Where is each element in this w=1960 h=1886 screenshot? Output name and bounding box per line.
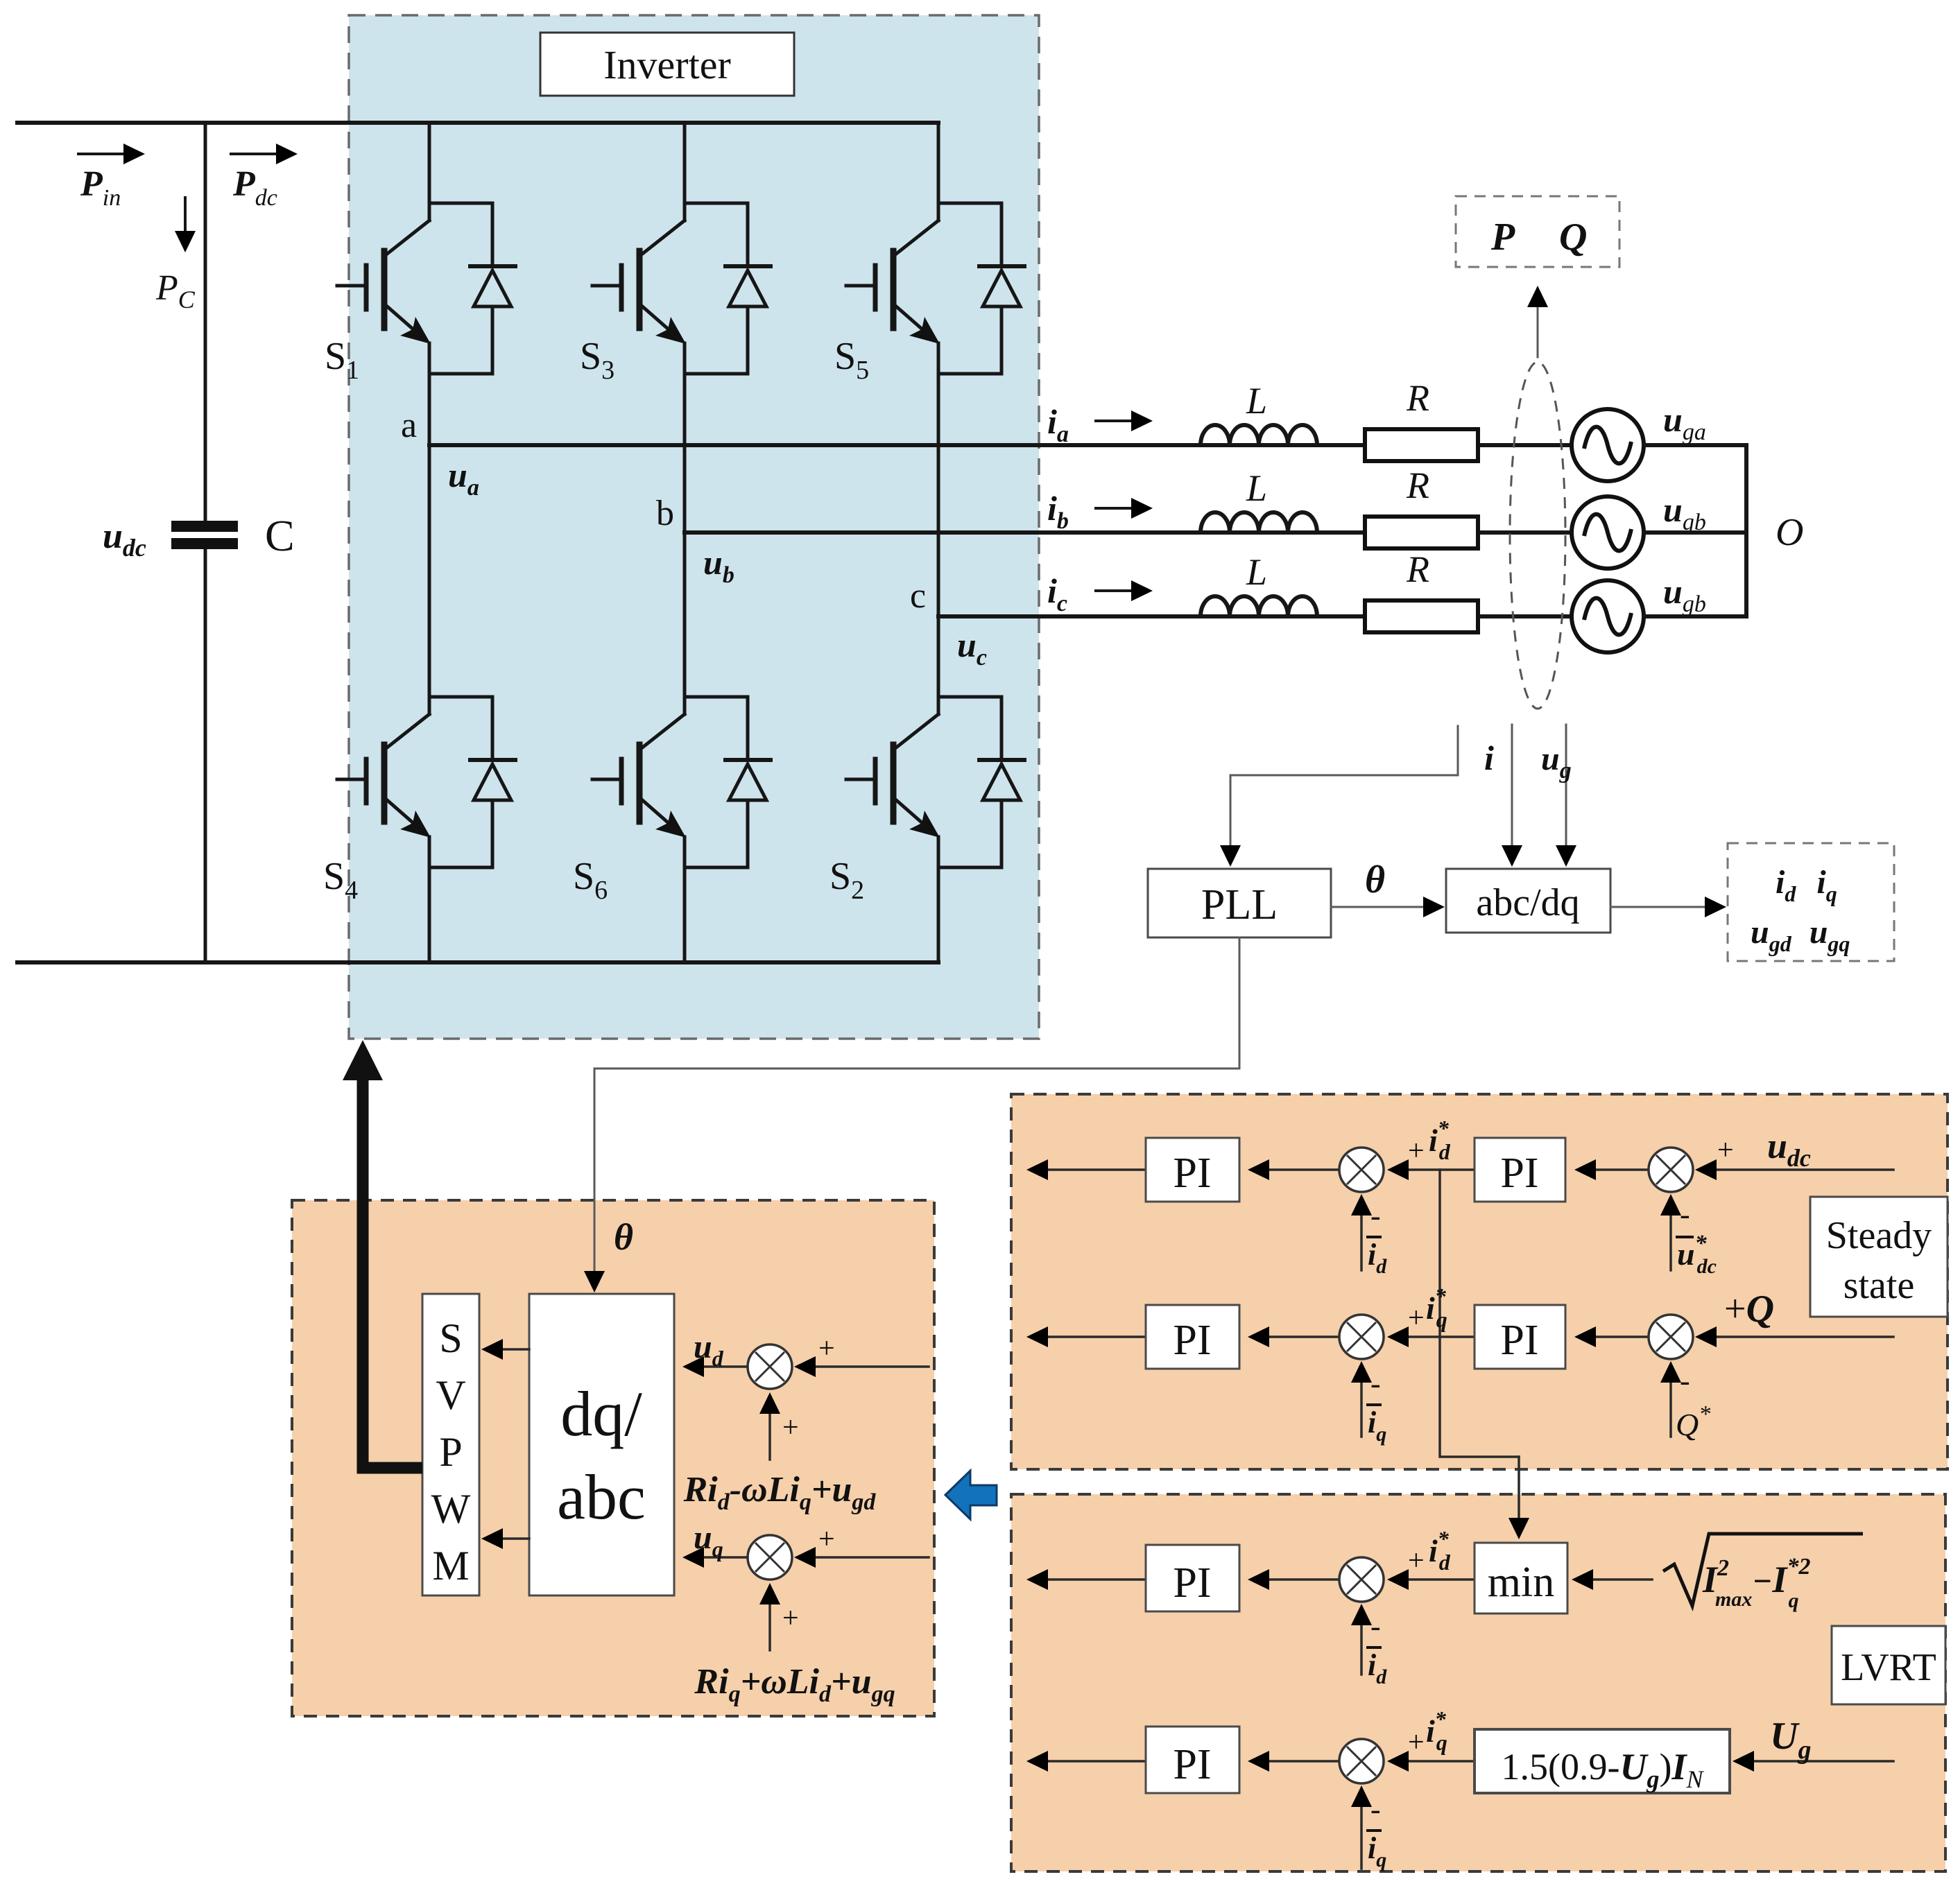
wire: leg A upper collector: [428, 123, 431, 205]
label ibar_q: [1366, 1405, 1386, 1446]
svg-text:V: V: [436, 1372, 465, 1418]
grid source u_gb: [1572, 496, 1644, 569]
current loop control box: [292, 1200, 934, 1716]
inductor L phase a: [1201, 425, 1317, 445]
arrow to P Q: [1527, 286, 1548, 357]
summing junction Q: [1649, 1315, 1693, 1359]
arrow output row2 lvrt: [1026, 1751, 1146, 1772]
svg-text:+: +: [1408, 1302, 1425, 1334]
PI block 3: [1146, 1305, 1239, 1369]
arrow PI2 to sum: [1387, 1159, 1475, 1180]
wire: dc-link vertical lower: [204, 548, 207, 962]
arrow dq/abc to SVPWM upper: [481, 1339, 529, 1360]
svg-text:i*q: i*q: [1426, 1283, 1447, 1332]
summing junction iq lvrt: [1339, 1739, 1384, 1783]
svg-text:a: a: [401, 406, 417, 445]
svg-text:+: +: [1717, 1134, 1734, 1166]
svg-text:M: M: [432, 1543, 469, 1589]
arrow PLL to abc/dq: [1331, 897, 1445, 917]
arrow sum to PI3: [1248, 1326, 1339, 1347]
svg-text:Inverter: Inverter: [603, 42, 731, 87]
svg-text:-: -: [1370, 1609, 1381, 1643]
LVRT control box: [1011, 1494, 1945, 1871]
svg-text:c: c: [910, 576, 926, 616]
PI block 5: [1146, 1545, 1239, 1611]
svg-text:+Q: +Q: [1724, 1288, 1774, 1331]
svg-text:i: i: [1484, 738, 1494, 777]
wire: leg B to bottom bus: [683, 867, 687, 962]
capacitor C plates: [171, 526, 238, 544]
wire: leg B upper collector: [683, 123, 687, 205]
svg-text:L: L: [1246, 380, 1267, 422]
svg-text:state: state: [1843, 1264, 1915, 1307]
arrow sum to PI6: [1248, 1751, 1339, 1772]
svg-text:ugb: ugb: [1663, 490, 1706, 535]
wire: source a to neutral bus: [1644, 443, 1746, 447]
svg-text:ic: ic: [1047, 571, 1067, 616]
svg-text:Pin: Pin: [80, 164, 121, 211]
svg-text:PI: PI: [1500, 1150, 1538, 1197]
SVPWM block: [422, 1294, 479, 1595]
svg-text:P: P: [439, 1429, 462, 1475]
svg-text:S: S: [439, 1315, 462, 1361]
transistor S3 with diode: [592, 203, 771, 374]
LVRT label box: [1832, 1626, 1945, 1704]
wire: u_g to abc/dq: [1556, 725, 1576, 867]
resistor R phase a: [1365, 429, 1478, 461]
wire: leg B emitter to node b: [683, 374, 687, 534]
arrow Q ref into sum: [1660, 1361, 1681, 1437]
svg-text:L: L: [1246, 467, 1267, 509]
wire: bottom DC bus: [17, 960, 938, 964]
svg-text:b: b: [656, 494, 674, 533]
wire: top DC bus: [17, 121, 938, 125]
svg-text:i*d: i*d: [1429, 1116, 1451, 1164]
wire: leg A node a to S4: [428, 445, 431, 698]
wire: phase c line: [938, 614, 1572, 618]
wire U_g input: [1733, 1751, 1893, 1772]
summing junction u_d: [748, 1344, 792, 1389]
inductor L phase b: [1201, 512, 1317, 533]
svg-text:+: +: [1408, 1545, 1425, 1577]
svg-text:ugb: ugb: [1663, 572, 1706, 617]
svg-text:+: +: [818, 1333, 835, 1365]
wire: neutral bus vertical: [1744, 445, 1748, 616]
wire: leg C node c to S2: [937, 615, 940, 698]
grid source u_ga: [1572, 409, 1644, 481]
svg-text:-: -: [1680, 1364, 1690, 1398]
svg-text:W: W: [431, 1486, 471, 1532]
svg-text:-: -: [1370, 1367, 1381, 1401]
blue arrow: [945, 1471, 997, 1519]
wire Q input: [1695, 1326, 1893, 1347]
arrow sum udc to PI2: [1574, 1159, 1649, 1180]
wire: leg B node b to S6: [683, 533, 687, 698]
svg-text:P: P: [1490, 216, 1515, 259]
wire: tap to PLL horizontal: [1230, 775, 1458, 777]
arrow output row1 lvrt: [1026, 1569, 1146, 1590]
svg-text:R: R: [1406, 377, 1429, 419]
arrow P_dc: [231, 144, 298, 164]
svg-text:PC: PC: [155, 268, 196, 313]
summing junction u_q: [748, 1535, 792, 1580]
svg-text:abc: abc: [557, 1462, 646, 1532]
arrow ibar_d into sum lvrt: [1351, 1604, 1372, 1675]
PI block 1: [1146, 1138, 1239, 1202]
wire: tap to PLL vertical: [1220, 775, 1241, 867]
transistor S6 with diode: [592, 697, 771, 867]
wire: leg A to bottom bus: [428, 867, 431, 962]
dq outputs dashed box: [1728, 843, 1894, 961]
arrow output row1 steady: [1026, 1159, 1146, 1180]
label u*_dc ref: [1676, 1231, 1717, 1278]
wire: theta into dq/abc: [584, 1069, 605, 1292]
arrow P_C down: [175, 198, 196, 252]
P Q dashed box: [1456, 196, 1619, 267]
label ibar_d lvrt: [1366, 1647, 1387, 1688]
wire: phase b line: [685, 530, 1572, 535]
wire: theta horizontal: [594, 1068, 1239, 1070]
arrow PI4 to sum: [1387, 1326, 1475, 1347]
measurement ellipse: [1510, 362, 1565, 709]
svg-text:PI: PI: [1500, 1317, 1538, 1364]
arrow dq/abc to SVPWM lower: [481, 1528, 529, 1549]
arrow sum Q to PI4: [1574, 1326, 1649, 1347]
svg-text:PLL: PLL: [1201, 881, 1278, 928]
svg-text:R: R: [1406, 465, 1429, 506]
abc/dq block: [1446, 869, 1610, 933]
svg-text:dq/: dq/: [560, 1378, 642, 1449]
svg-text:R: R: [1406, 548, 1429, 590]
svg-text:θ: θ: [614, 1216, 633, 1258]
svg-text:PI: PI: [1173, 1741, 1211, 1788]
resistor R phase c: [1365, 600, 1478, 632]
transistor S5 with diode: [846, 203, 1024, 374]
svg-text:+: +: [1408, 1135, 1425, 1167]
PI block 4: [1475, 1305, 1565, 1369]
svg-text:1.5(0.9-Ug)IN: 1.5(0.9-Ug)IN: [1502, 1746, 1705, 1793]
inverter block background: [349, 15, 1039, 1039]
summing junction iq row2 steady: [1339, 1315, 1384, 1359]
transistor S2 with diode: [846, 697, 1024, 867]
arrow output row2 steady: [1026, 1326, 1146, 1347]
svg-text:-: -: [1680, 1197, 1690, 1231]
wire: i to abc/dq: [1502, 725, 1522, 867]
arrow u_d into dq/abc: [682, 1356, 747, 1377]
inductor L phase c: [1201, 596, 1317, 616]
wire: leg C to bottom bus: [937, 867, 940, 962]
svg-text:PI: PI: [1173, 1150, 1211, 1197]
label sqrt Imax: [1663, 1534, 1863, 1612]
wire i*_d tap down: [1440, 1170, 1519, 1457]
steady state control box: [1011, 1094, 1948, 1469]
svg-text:udc: udc: [103, 517, 146, 562]
svg-text:C: C: [265, 511, 295, 560]
arrow min to sum: [1387, 1569, 1475, 1590]
PI block 2: [1475, 1138, 1565, 1202]
svg-text:-: -: [1370, 1792, 1381, 1826]
svg-text:i*d: i*d: [1429, 1526, 1451, 1575]
wire u_dc input: [1695, 1159, 1893, 1180]
svg-text:LVRT: LVRT: [1841, 1646, 1936, 1689]
wire: measurement tap stub: [1457, 726, 1459, 775]
Steady state label box: [1810, 1197, 1948, 1317]
wire: leg A emitter to node a: [428, 374, 431, 447]
thick arrow SVPWM to inverter: [343, 1040, 422, 1468]
arrow u_q into dq/abc: [682, 1547, 747, 1568]
svg-text:abc/dq: abc/dq: [1476, 881, 1579, 924]
label ibar_q lvrt: [1366, 1831, 1386, 1871]
arrow sum to PI1: [1248, 1159, 1339, 1180]
PLL block: [1148, 869, 1331, 937]
arrow abc/dq to outputs: [1610, 897, 1726, 917]
wire: source c to neutral bus: [1644, 614, 1746, 618]
svg-text:PI: PI: [1173, 1559, 1211, 1607]
Inverter title box: [540, 33, 794, 96]
arrow compensation into u_q sum: [759, 1583, 780, 1650]
svg-text:+: +: [782, 1412, 799, 1444]
svg-text:+: +: [818, 1523, 835, 1555]
svg-text:uga: uga: [1663, 400, 1706, 445]
arrow reactive box to sum: [1387, 1751, 1475, 1772]
min block: [1475, 1543, 1567, 1614]
svg-text:Q: Q: [1559, 216, 1587, 259]
arrow i_b: [1096, 498, 1153, 519]
wire: source b to neutral bus: [1644, 530, 1746, 535]
arrow sqrt to min: [1572, 1569, 1652, 1590]
wire into sum u_q from right: [794, 1547, 929, 1568]
summing junction udc: [1649, 1148, 1693, 1192]
wire: dc-link vertical upper: [204, 123, 207, 521]
wire into sum u_d from right: [794, 1356, 929, 1377]
arrow udc ref into sum: [1660, 1194, 1681, 1270]
arrow P_in: [78, 144, 145, 164]
wire: phase a line: [429, 443, 1572, 447]
summing junction id row1 steady: [1339, 1148, 1384, 1192]
resistor R phase b: [1365, 517, 1478, 548]
svg-text:Steady: Steady: [1826, 1214, 1932, 1257]
svg-text:+: +: [782, 1602, 799, 1634]
svg-text:Riq+ωLid+ugq: Riq+ωLid+ugq: [694, 1662, 895, 1707]
svg-text:θ: θ: [1365, 858, 1385, 901]
svg-text:-: -: [1370, 1199, 1381, 1233]
svg-text:Pdc: Pdc: [232, 164, 277, 211]
svg-text:min: min: [1488, 1559, 1554, 1606]
svg-text:Rid-ωLiq+ugd: Rid-ωLiq+ugd: [683, 1470, 877, 1515]
summing junction id lvrt: [1339, 1557, 1384, 1602]
dq/abc block: [529, 1294, 674, 1595]
wire: leg C emitter to node c: [937, 374, 940, 616]
wire: leg C upper collector: [937, 123, 940, 205]
svg-text:O: O: [1776, 511, 1803, 554]
svg-text:ia: ia: [1047, 402, 1069, 447]
arrow tap into min: [1508, 1457, 1529, 1539]
wire: PLL theta down: [1239, 937, 1241, 1069]
arrow ibar_q into sum lvrt: [1351, 1785, 1372, 1869]
svg-text:i*q: i*q: [1426, 1706, 1447, 1755]
transistor S1 with diode: [337, 203, 515, 374]
grid source u_gc: [1572, 580, 1644, 652]
svg-text:+: +: [1408, 1727, 1425, 1758]
arrow compensation into u_d sum: [759, 1392, 780, 1460]
arrow ibar_d into sum row1: [1351, 1194, 1372, 1270]
svg-text:L: L: [1246, 551, 1267, 593]
label ibar_d: [1366, 1237, 1387, 1278]
transistor S4 with diode: [337, 697, 515, 867]
PI block 6: [1146, 1727, 1239, 1793]
svg-text:ib: ib: [1047, 489, 1069, 534]
arrow sum to PI5: [1248, 1569, 1339, 1590]
reactive current box 1.5(0.9-Ug)IN: [1475, 1729, 1730, 1793]
arrow i_c: [1096, 580, 1153, 601]
svg-text:PI: PI: [1173, 1317, 1211, 1364]
arrow ibar_q into sum row2: [1351, 1361, 1372, 1437]
arrow i_a: [1096, 410, 1153, 431]
